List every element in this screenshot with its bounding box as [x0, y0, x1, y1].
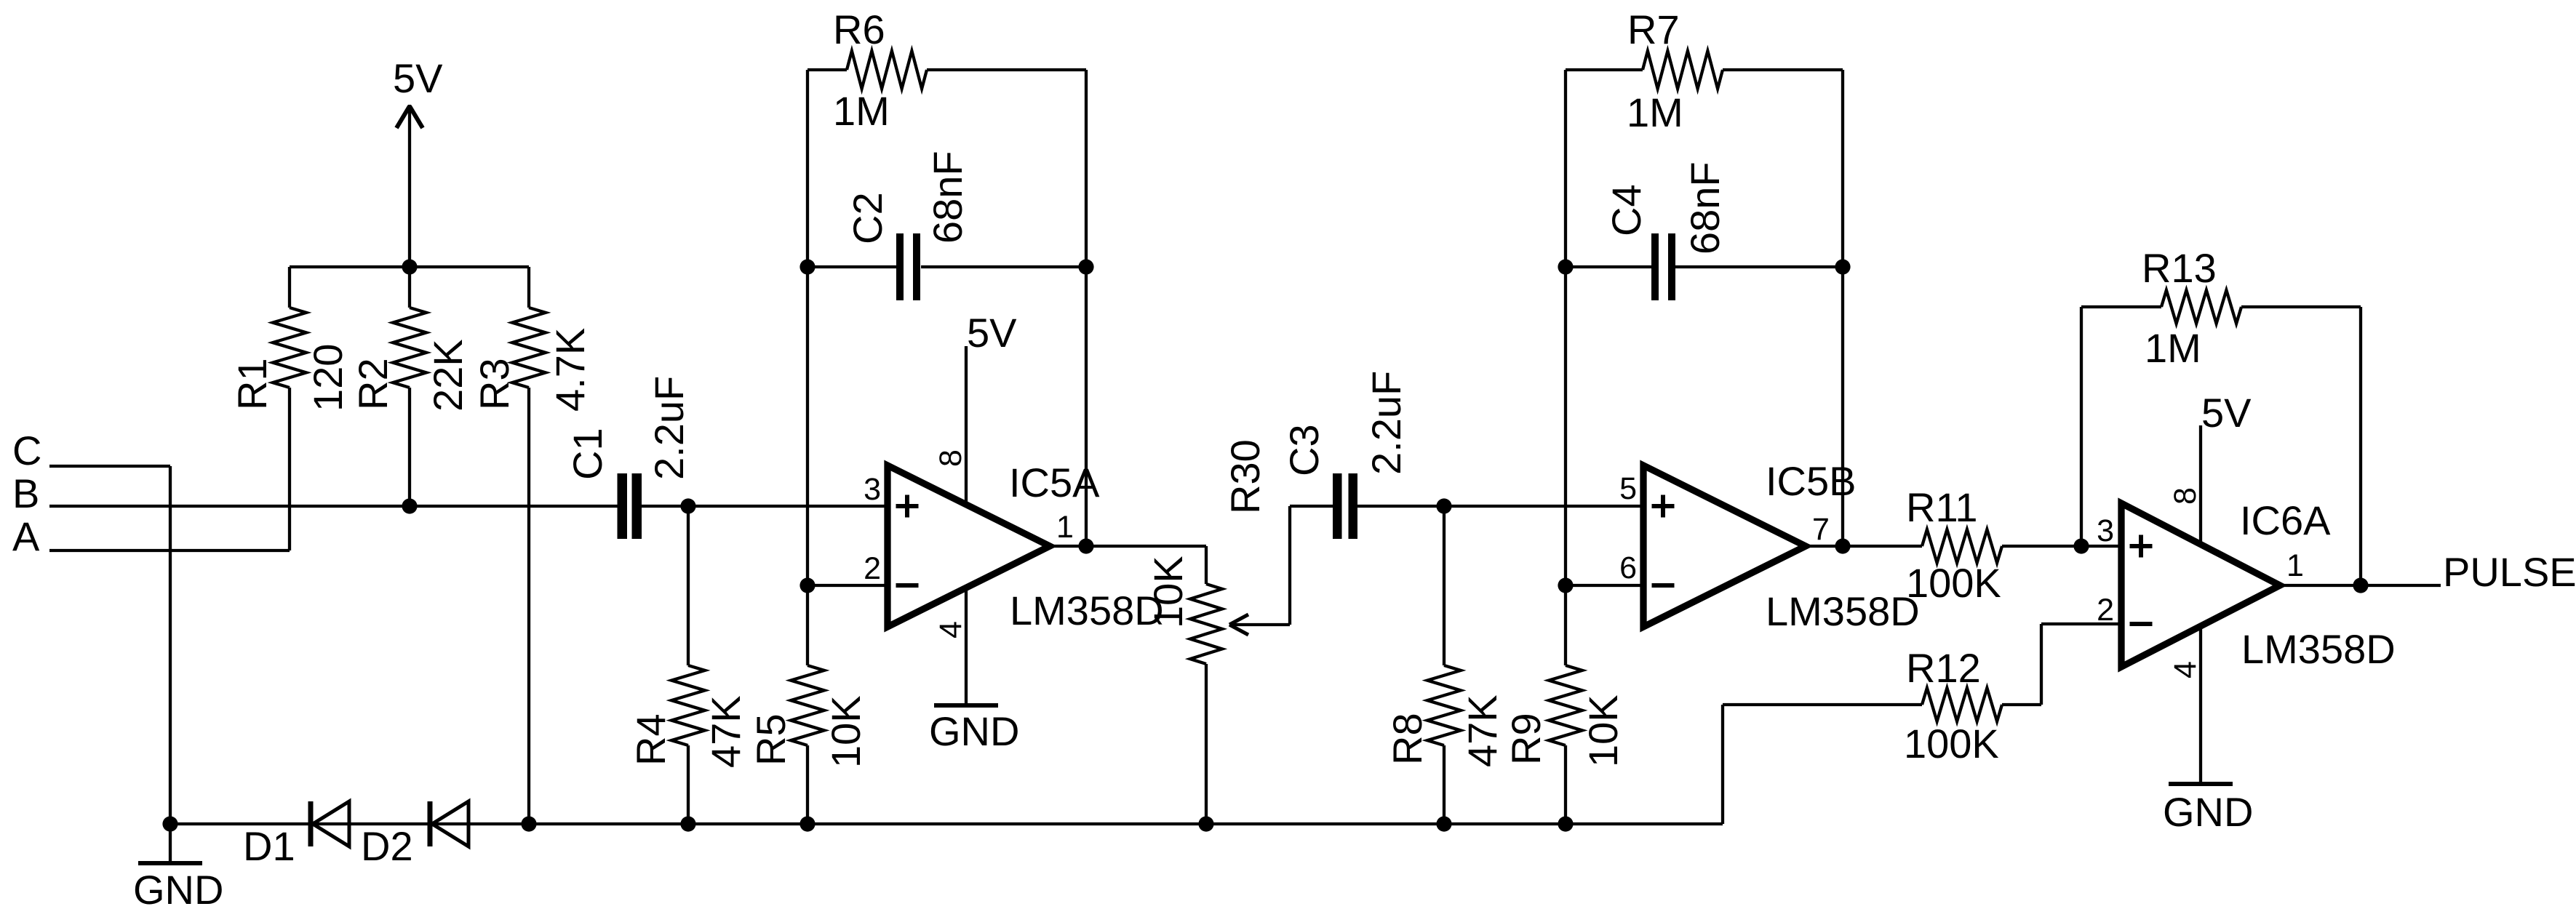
svg-text:3: 3 — [864, 472, 881, 507]
diode D2 — [428, 801, 433, 846]
svg-text:D1: D1 — [243, 823, 295, 869]
svg-text:A: A — [12, 513, 40, 559]
svg-text:R5: R5 — [748, 713, 794, 766]
junction C1 out — [680, 498, 695, 513]
pull-up rail — [290, 265, 529, 268]
resistor R13 — [2081, 305, 2161, 308]
svg-text:1: 1 — [1056, 510, 1074, 545]
svg-text:10K: 10K — [1580, 694, 1626, 767]
junction C2 left — [799, 259, 815, 274]
svg-text:8: 8 — [2168, 487, 2203, 505]
svg-text:4: 4 — [933, 621, 968, 638]
capacitor C1 — [618, 473, 628, 539]
resistor R2 — [408, 267, 411, 308]
resistor R1 — [288, 267, 291, 308]
svg-text:100K: 100K — [1904, 721, 1999, 766]
svg-text:LM358D: LM358D — [1010, 588, 1164, 633]
wire C3 to IC5B — [1357, 505, 1643, 508]
svg-text:GND: GND — [2163, 789, 2253, 835]
junction 5V rail — [402, 259, 417, 274]
wire B — [49, 505, 618, 508]
svg-text:2.2uF: 2.2uF — [1363, 371, 1409, 475]
svg-text:6: 6 — [1619, 550, 1637, 585]
svg-text:2.2uF: 2.2uF — [646, 376, 692, 480]
svg-text:7: 7 — [1812, 512, 1830, 547]
svg-text:5V: 5V — [2201, 390, 2252, 436]
svg-text:4.7K: 4.7K — [547, 328, 593, 412]
junction rail R30 — [1198, 816, 1213, 831]
wire loop3 left — [2080, 307, 2083, 546]
svg-text:GND: GND — [133, 867, 223, 913]
junction rail R8 — [1436, 816, 1451, 831]
wire inv input IC5B — [1566, 584, 1643, 587]
IC5B minus — [1652, 583, 1675, 588]
svg-text:1: 1 — [2286, 548, 2304, 583]
op-amp IC5A — [888, 465, 1050, 627]
svg-text:5: 5 — [1619, 471, 1637, 506]
IC5A minus — [896, 583, 919, 588]
op-amp IC5B — [1643, 465, 1806, 627]
svg-text:R30: R30 — [1222, 439, 1268, 514]
wire IC5B out — [1806, 545, 1922, 548]
svg-text:100K: 100K — [1906, 560, 2001, 606]
svg-text:5V: 5V — [967, 310, 1017, 356]
svg-text:IC5A: IC5A — [1009, 460, 1100, 505]
svg-text:R4: R4 — [628, 713, 674, 766]
wire loop2 left — [1564, 70, 1567, 585]
wire loop3 right — [2359, 307, 2362, 585]
R30 wiper arrow — [1229, 623, 1290, 626]
svg-text:2: 2 — [864, 551, 881, 586]
svg-text:C1: C1 — [565, 428, 610, 480]
junction rail C — [162, 816, 178, 831]
svg-text:PULSE: PULSE — [2443, 549, 2576, 595]
svg-text:1M: 1M — [2145, 325, 2201, 371]
junction IC6A out — [2353, 577, 2368, 593]
svg-text:R13: R13 — [2142, 245, 2217, 291]
svg-text:10K: 10K — [1145, 556, 1191, 628]
svg-text:C: C — [12, 428, 41, 473]
wire to IC6A plus — [2081, 545, 2121, 548]
diode D1 — [308, 801, 314, 846]
svg-text:GND: GND — [929, 708, 1019, 754]
svg-text:47K: 47K — [703, 695, 749, 768]
svg-text:120: 120 — [305, 344, 351, 412]
capacitor C2 — [808, 265, 896, 268]
svg-text:10K: 10K — [823, 695, 869, 768]
junction IC5A out — [1078, 538, 1093, 553]
svg-text:LM358D: LM358D — [1766, 588, 1920, 634]
wire loop2 right — [1841, 70, 1844, 546]
ground GND1 — [169, 824, 172, 862]
svg-text:R3: R3 — [471, 358, 517, 410]
junction C4 right — [1835, 259, 1850, 274]
bottom rail — [170, 822, 1723, 825]
resistor R3 — [527, 267, 530, 308]
wire PULSE — [2280, 584, 2441, 587]
svg-text:3: 3 — [2097, 513, 2114, 548]
junction rail R9 — [1558, 816, 1573, 831]
resistor R7 — [1566, 68, 1643, 71]
resistor R6 — [808, 68, 847, 71]
wire loop1 left — [806, 70, 809, 585]
capacitor C3 — [1290, 505, 1333, 508]
svg-text:68nF: 68nF — [925, 151, 970, 244]
junction C2 right — [1078, 259, 1093, 274]
svg-text:IC5B: IC5B — [1766, 458, 1857, 504]
IC6A minus — [2130, 622, 2153, 626]
junction IC5B out — [1835, 538, 1850, 553]
capacitor C4 — [1566, 265, 1651, 268]
resistor R4 — [687, 506, 690, 665]
IC5A GND — [965, 588, 968, 704]
svg-text:R12: R12 — [1906, 645, 1981, 691]
potentiometer R30 — [1205, 546, 1208, 584]
svg-text:IC6A: IC6A — [2240, 497, 2331, 543]
junction IC5A inv — [799, 577, 815, 593]
svg-text:R7: R7 — [1627, 7, 1680, 52]
wire rail to R12 — [1721, 705, 1724, 824]
wire A — [49, 549, 290, 552]
resistor R11 — [1922, 529, 2002, 563]
resistor R8 — [1443, 506, 1445, 665]
resistor R12 — [1922, 688, 2002, 721]
wire inv input IC5A — [808, 584, 888, 587]
junction rail R5 — [799, 816, 815, 831]
junction C3 out — [1436, 498, 1451, 513]
svg-text:R8: R8 — [1384, 713, 1430, 765]
svg-text:2: 2 — [2097, 593, 2114, 628]
svg-text:R1: R1 — [229, 358, 275, 410]
svg-text:68nF: 68nF — [1682, 161, 1728, 255]
svg-text:LM358D: LM358D — [2241, 626, 2396, 672]
svg-text:8: 8 — [933, 449, 968, 467]
wire loop1 right — [1085, 70, 1088, 546]
wire IC5A out — [1050, 545, 1206, 548]
resistor R5 — [806, 585, 809, 665]
junction IC5B inv — [1558, 577, 1573, 593]
wire C — [49, 465, 170, 468]
wire C1 to IC5A — [640, 505, 888, 508]
svg-text:R9: R9 — [1503, 713, 1549, 765]
svg-text:R2: R2 — [350, 358, 396, 410]
junction R2-B — [402, 498, 417, 513]
svg-text:1M: 1M — [1627, 89, 1683, 135]
IC5B plus — [1652, 504, 1675, 508]
svg-text:22K: 22K — [425, 339, 471, 412]
svg-text:47K: 47K — [1459, 694, 1505, 767]
svg-text:C4: C4 — [1603, 184, 1649, 236]
resistor R9 — [1564, 585, 1567, 665]
IC6A GND — [2199, 626, 2202, 782]
svg-text:R11: R11 — [1906, 484, 1978, 530]
svg-text:1M: 1M — [833, 88, 890, 134]
svg-text:B: B — [12, 470, 39, 516]
wire C4 right — [1675, 265, 1843, 268]
svg-text:C3: C3 — [1281, 424, 1327, 476]
IC6A plus — [2130, 544, 2153, 548]
svg-text:C2: C2 — [845, 192, 890, 244]
junction C4 left — [1558, 259, 1573, 274]
svg-text:5V: 5V — [393, 55, 443, 101]
svg-text:D2: D2 — [361, 823, 413, 869]
junction rail R3 — [521, 816, 536, 831]
IC5A plus — [896, 504, 919, 508]
junction rail R4 — [680, 816, 695, 831]
wire R12 to IC6A minus — [2040, 624, 2043, 705]
op-amp IC6A — [2121, 503, 2280, 667]
junction IC6A plus — [2073, 538, 2089, 553]
svg-text:4: 4 — [2168, 661, 2203, 678]
svg-text:R6: R6 — [833, 7, 885, 52]
